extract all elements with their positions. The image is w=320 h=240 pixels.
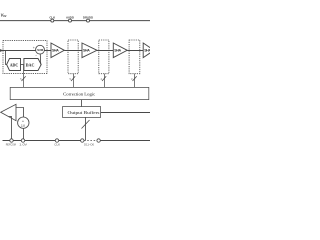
bus slash stage2 — [71, 76, 75, 81]
wire input branch down to ADC — [6, 51, 7, 65]
pin 1.0V — [21, 139, 24, 142]
pin REFCOM — [10, 139, 13, 142]
svg-text:+: + — [33, 46, 35, 50]
summing junction — [36, 45, 45, 54]
wire SHA3 to SHA4 — [127, 50, 143, 52]
A/D stage 4 dashed block — [129, 40, 140, 74]
pin CLK bottom — [55, 139, 58, 142]
svg-text:ADC: ADC — [10, 62, 19, 67]
wire ref amp feedback down — [9, 117, 12, 141]
pin CLK — [51, 19, 54, 22]
input arrowhead — [0, 49, 3, 52]
op-amp SHA2 — [82, 43, 97, 58]
op-amp SHA3 — [113, 43, 127, 58]
bus slash stage1 — [22, 76, 26, 81]
svg-text:1.0V: 1.0V — [19, 144, 27, 147]
ADC flag — [7, 59, 21, 71]
svg-text:SHA: SHA — [144, 48, 150, 52]
svg-text:SHA: SHA — [52, 48, 59, 52]
wire stage4 tap down — [134, 74, 136, 87]
stage 1 dashed block — [3, 40, 47, 73]
svg-text:Correction Logic: Correction Logic — [63, 92, 95, 97]
output buffers box — [63, 107, 101, 118]
svg-text:−: − — [35, 54, 37, 58]
wire input to summer — [0, 50, 36, 52]
pin D11 — [81, 139, 84, 142]
wire stage2 tap down — [73, 74, 75, 87]
wire SHA2 to SHA3 — [97, 50, 113, 52]
wire ADC tap down to correction logic — [23, 65, 25, 88]
pin DRVDD — [87, 19, 90, 22]
correction logic box — [10, 87, 149, 99]
A/D stage 2 dashed block — [68, 40, 78, 74]
pin D0 — [97, 139, 100, 142]
svg-text:VIN: VIN — [1, 13, 8, 18]
wire DAC up to summer — [39, 54, 41, 65]
wire 1V source to pin — [23, 128, 25, 140]
bus slash output — [82, 120, 90, 129]
1V reference source — [18, 117, 29, 128]
A/D stage 3 dashed block — [99, 40, 109, 74]
wire correction logic to output buffers — [81, 100, 83, 107]
bus slash stage3 — [102, 76, 106, 81]
wire stage3 tap down — [104, 74, 106, 87]
op-amp SHA4 (clipped at right edge) — [143, 43, 154, 58]
wire top supply rail — [0, 20, 150, 22]
wire SHA1 to SHA2 — [64, 50, 82, 52]
svg-text:DAC: DAC — [26, 62, 35, 67]
wire bottom rail dashed bus section — [84, 140, 98, 142]
wire bottom rail left — [3, 140, 84, 142]
bus slash stage4 — [133, 76, 137, 81]
svg-text:SUM: SUM — [37, 48, 44, 52]
svg-text:REFCOM: REFCOM — [6, 144, 16, 147]
wire bottom rail right — [98, 140, 150, 142]
DAC flag — [24, 59, 41, 71]
svg-text:D11–D0: D11–D0 — [84, 144, 95, 147]
wire ref amp to 1V source — [16, 108, 24, 118]
pin AVDD — [69, 19, 72, 22]
wire output buffers to right edge — [101, 112, 150, 114]
reference buffer op-amp — [1, 104, 16, 120]
svg-text:SHA: SHA — [83, 48, 90, 52]
wire ADC to DAC — [21, 64, 24, 66]
svg-text:SHA: SHA — [114, 48, 121, 52]
wire output bus down — [85, 117, 87, 140]
svg-text:Output Buffers: Output Buffers — [68, 110, 100, 115]
svg-text:CLK: CLK — [54, 144, 60, 147]
wire summer to SHA1 — [44, 50, 51, 52]
op-amp SHA1 — [51, 43, 64, 58]
